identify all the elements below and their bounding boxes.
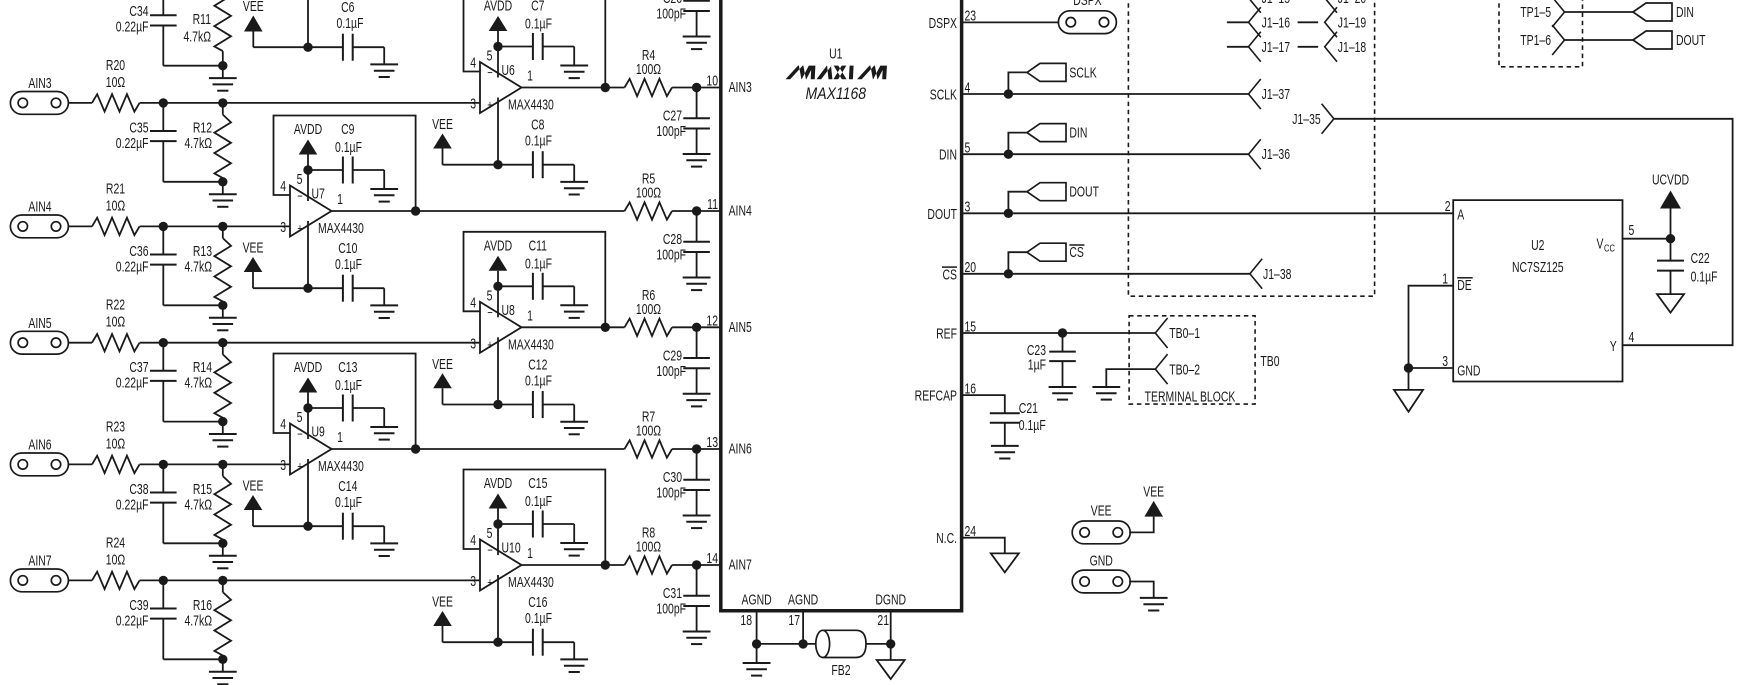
svg-text:R20: R20: [106, 57, 125, 73]
power VEE U9: [243, 478, 308, 526]
svg-text:3: 3: [1442, 353, 1448, 369]
wire: [962, 21, 1059, 23]
pad GND: [1072, 553, 1130, 593]
svg-text:0.1µF: 0.1µF: [525, 610, 552, 626]
pin 4 Y: [1610, 329, 1635, 354]
input pad AIN5: [10, 315, 68, 354]
node supply junction: [303, 165, 312, 174]
ground: [743, 644, 771, 676]
svg-text:5: 5: [1629, 222, 1635, 238]
svg-text:TP1–5: TP1–5: [1520, 4, 1551, 20]
ground: [683, 153, 711, 155]
resistor R8 100ohm: [625, 525, 673, 574]
svg-text:C11: C11: [529, 238, 547, 254]
flag CS: [1008, 243, 1084, 274]
flag DOUT: [1008, 183, 1099, 214]
node pin 12 junction: [692, 323, 701, 332]
resistor R13 4.7kohm: [184, 226, 231, 305]
svg-text:C10: C10: [338, 240, 357, 256]
wire: [522, 326, 625, 328]
wire pin 5: [307, 170, 309, 201]
svg-text:11: 11: [707, 196, 718, 212]
svg-text:R12: R12: [193, 120, 212, 136]
wire: [672, 448, 721, 450]
svg-text:V: V: [1597, 236, 1604, 252]
svg-text:AIN7: AIN7: [729, 557, 752, 573]
svg-text:C35: C35: [129, 120, 148, 136]
svg-text:DOUT: DOUT: [927, 206, 957, 222]
capacitor C27 100pF: [656, 88, 709, 155]
node RC junction: [218, 539, 227, 548]
ground: [209, 543, 237, 568]
svg-text:AVDD: AVDD: [484, 475, 512, 491]
svg-text:0.1µF: 0.1µF: [525, 493, 552, 509]
pin 5 DIN: [939, 140, 970, 163]
svg-text:AIN6: AIN6: [729, 441, 752, 457]
capacitor C15 0.1uF: [498, 475, 574, 543]
pin 1 DE: [1442, 271, 1473, 294]
power VEE: [1143, 484, 1164, 517]
ground: [560, 421, 588, 423]
node AIN3 junction 2: [218, 98, 227, 107]
pin 23 DSPX: [929, 8, 977, 31]
capacitor C10 0.1uF: [308, 240, 384, 305]
svg-text:C31: C31: [663, 585, 682, 601]
pin 3 GND: [1442, 353, 1480, 379]
wire feedback loop U8: [464, 232, 606, 327]
wire: [332, 210, 625, 212]
wire pin 5: [497, 524, 499, 555]
wire: [1409, 367, 1454, 369]
svg-text:0.1µF: 0.1µF: [525, 16, 552, 32]
node vee junction: [493, 160, 502, 169]
svg-text:5: 5: [297, 409, 303, 425]
resistor R20 10ohm: [92, 57, 140, 111]
resistor R15 4.7kohm: [184, 464, 231, 543]
svg-text:0.22µF: 0.22µF: [116, 19, 149, 35]
resistor R7 100ohm: [625, 409, 673, 458]
wire: [1565, 11, 1634, 13]
svg-text:MAX4430: MAX4430: [508, 97, 554, 113]
svg-text:J1–17: J1–17: [1262, 39, 1290, 55]
svg-text:+: +: [297, 222, 303, 236]
node output junction: [601, 560, 610, 569]
svg-text:R16: R16: [193, 597, 212, 613]
resistor R11 4.7kohm: [183, 0, 231, 66]
node AGND junction 2: [798, 639, 807, 648]
wire DE to GND: [1409, 286, 1454, 368]
svg-text:R13: R13: [193, 243, 212, 259]
svg-text:0.1µF: 0.1µF: [335, 377, 362, 393]
svg-text:DGND: DGND: [875, 592, 906, 608]
wire pin 2: [497, 98, 499, 165]
svg-text:100Ω: 100Ω: [636, 301, 661, 317]
svg-text:0.22µF: 0.22µF: [116, 613, 149, 629]
svg-text:UCVDD: UCVDD: [1652, 172, 1689, 188]
pin 20 CS: [942, 259, 976, 282]
wire: [163, 421, 223, 423]
svg-text:C6: C6: [341, 0, 354, 15]
svg-text:AIN5: AIN5: [729, 319, 752, 335]
capacitor C37 0.22uF: [116, 343, 177, 422]
wire feedback loop U10: [464, 470, 606, 566]
node supply junction: [493, 42, 502, 51]
op-amp U7 MAX4430: [280, 171, 364, 236]
svg-text:J1–38: J1–38: [1263, 266, 1291, 282]
svg-text:U9: U9: [312, 424, 325, 440]
connector J1-16: [1249, 7, 1291, 37]
pad DSPX: [1058, 0, 1116, 34]
svg-text:VEE: VEE: [432, 594, 453, 610]
connector J1-15: [1249, 0, 1291, 13]
node pin 13 junction: [692, 444, 701, 453]
ground: [683, 277, 711, 279]
svg-text:Y: Y: [1610, 338, 1617, 354]
ground: [209, 659, 237, 684]
wire J1-35 to U2 Y: [1334, 119, 1733, 345]
svg-text:4.7kΩ: 4.7kΩ: [184, 497, 212, 513]
wire feedback loop U9: [274, 354, 416, 450]
svg-text:0.1µF: 0.1µF: [1691, 269, 1718, 285]
node pin 11 junction: [692, 206, 701, 215]
dashed box J1 connector group: [1128, 0, 1374, 296]
node pin 14 junction: [692, 560, 701, 569]
svg-text:C21: C21: [1019, 400, 1038, 416]
svg-text:1µF: 1µF: [1028, 357, 1046, 373]
svg-text:U10: U10: [502, 540, 521, 556]
ground: [209, 305, 237, 330]
ground: [683, 631, 711, 633]
svg-text:0.22µF: 0.22µF: [116, 259, 149, 275]
svg-text:4.7kΩ: 4.7kΩ: [183, 29, 211, 45]
svg-text:R24: R24: [106, 535, 125, 551]
svg-text:VEE: VEE: [243, 0, 264, 14]
wire: [672, 87, 721, 89]
svg-text:VEE: VEE: [1143, 484, 1164, 500]
svg-text:0.22µF: 0.22µF: [116, 497, 149, 513]
svg-text:4.7kΩ: 4.7kΩ: [184, 375, 212, 391]
svg-text:FB2: FB2: [831, 662, 850, 678]
svg-text:GND: GND: [1090, 553, 1113, 569]
capacitor C14 0.1uF: [308, 478, 384, 543]
svg-text:0.1µF: 0.1µF: [335, 139, 362, 155]
pin 21 DGND: [875, 592, 906, 644]
flag SCLK: [1008, 63, 1097, 94]
power AVDD U6: [484, 0, 512, 47]
capacitor C36 0.22uF: [116, 226, 177, 305]
ferrite bead FB2: [816, 630, 866, 678]
svg-text:C39: C39: [129, 597, 148, 613]
svg-text:DIN: DIN: [1069, 125, 1087, 141]
svg-text:C9: C9: [341, 121, 354, 137]
wire: [140, 342, 480, 344]
node AIN5 junction: [159, 338, 168, 347]
svg-text:−: −: [297, 190, 303, 204]
ground: [370, 63, 398, 65]
svg-text:100pF: 100pF: [656, 363, 686, 379]
capacitor C8 0.1uF: [498, 117, 574, 182]
ground: [209, 66, 237, 91]
capacitor C16 0.1uF: [498, 594, 574, 659]
node vee junction: [493, 638, 502, 647]
pin 13 AIN6: [706, 434, 751, 457]
node AIN7 junction 2: [218, 576, 227, 585]
svg-text:VEE: VEE: [243, 240, 264, 256]
wire: [1298, 21, 1319, 23]
svg-text:J1–20: J1–20: [1338, 0, 1366, 6]
svg-text:0.1µF: 0.1µF: [525, 256, 552, 272]
svg-text:0.1µF: 0.1µF: [335, 256, 362, 272]
svg-text:AGND: AGND: [788, 592, 818, 608]
resistor R22 10ohm: [92, 297, 140, 351]
svg-text:TP1–6: TP1–6: [1520, 32, 1551, 48]
ground: [370, 426, 398, 428]
ground: [560, 181, 588, 183]
svg-text:U6: U6: [502, 62, 515, 78]
svg-text:3: 3: [280, 457, 286, 473]
resistor R12 4.7kohm: [184, 103, 231, 182]
wire: [68, 102, 92, 104]
connector J1-35: [1292, 104, 1334, 134]
capacitor C39 0.22uF: [116, 580, 177, 659]
node U2 ground junction: [1404, 363, 1413, 372]
node AIN5 junction 2: [218, 338, 227, 347]
svg-text:AIN3: AIN3: [28, 75, 51, 91]
svg-text:AVDD: AVDD: [484, 0, 512, 14]
capacitor C31 100pF: [656, 565, 709, 632]
connector J1-19: [1325, 7, 1367, 37]
wire pin 2: [307, 221, 309, 288]
capacitor C30 100pF: [656, 449, 709, 516]
resistor R21 10ohm: [92, 181, 140, 235]
svg-text:J1–15: J1–15: [1262, 0, 1290, 6]
node supply junction: [493, 519, 502, 528]
wire: [140, 579, 480, 581]
ground digital: [1394, 368, 1423, 412]
svg-text:TB0: TB0: [1260, 353, 1279, 369]
svg-text:100Ω: 100Ω: [636, 61, 661, 77]
test point TP1-5: [1520, 0, 1564, 27]
wire: [68, 463, 92, 465]
svg-text:100pF: 100pF: [656, 601, 686, 617]
svg-text:C7: C7: [531, 0, 544, 14]
ground: [991, 445, 1019, 447]
capacitor C22 0.1uF: [1657, 239, 1718, 294]
power UCVDD: [1652, 172, 1689, 239]
ground: [370, 542, 398, 544]
svg-text:0.1µF: 0.1µF: [525, 133, 552, 149]
ground: [209, 182, 237, 207]
op-amp U8 MAX4430: [470, 288, 554, 353]
svg-text:1: 1: [1442, 271, 1448, 287]
wire: [672, 564, 721, 566]
pin 12 AIN5: [706, 313, 751, 336]
svg-text:1: 1: [527, 68, 533, 84]
wire pin 2: [307, 459, 309, 526]
wire TB0-2: [1106, 369, 1155, 387]
resistor R6 100ohm: [625, 287, 673, 336]
ground: [683, 515, 711, 517]
svg-text:3: 3: [280, 219, 286, 235]
node output junction: [601, 323, 610, 332]
svg-text:5: 5: [297, 171, 303, 187]
svg-text:17: 17: [788, 612, 800, 628]
wire: [163, 658, 223, 660]
svg-text:5: 5: [487, 48, 493, 64]
svg-text:+: +: [487, 576, 493, 590]
node DOUT junction: [1004, 209, 1013, 218]
wire: [522, 564, 625, 566]
wire pin 2: [497, 575, 499, 642]
svg-text:DSPX: DSPX: [1073, 0, 1102, 8]
node RC junction: [218, 417, 227, 426]
resistor R14 4.7kohm: [184, 343, 231, 422]
svg-text:0.1µF: 0.1µF: [525, 373, 552, 389]
node REF junction: [1058, 328, 1067, 337]
svg-text:0.22µF: 0.22µF: [116, 375, 149, 391]
svg-text:VEE: VEE: [243, 478, 264, 494]
svg-text:100pF: 100pF: [656, 123, 686, 139]
svg-text:CS: CS: [943, 267, 957, 283]
wire: [962, 273, 1009, 275]
connector J1-17: [1249, 32, 1291, 62]
svg-text:C12: C12: [528, 357, 547, 373]
capacitor C6 0.1uF: [308, 0, 384, 64]
power VEE U5: [243, 0, 308, 47]
svg-text:J1–18: J1–18: [1338, 39, 1366, 55]
ground: [1049, 386, 1077, 388]
pin 24 N.C.: [936, 523, 976, 546]
node RC junction: [218, 301, 227, 310]
dashed box TP1: [1499, 0, 1583, 67]
ground: [560, 542, 588, 544]
capacitor C9 0.1uF: [308, 121, 384, 189]
power AVDD U10: [484, 475, 512, 524]
ground digital: [1657, 294, 1684, 313]
svg-text:5: 5: [487, 525, 493, 541]
ground: [209, 422, 237, 447]
wire: [962, 93, 1009, 95]
svg-text:4.7kΩ: 4.7kΩ: [184, 613, 212, 629]
connector TB0-2: [1155, 354, 1200, 384]
pin 14 AIN7: [706, 550, 751, 573]
ground: [560, 304, 588, 306]
svg-text:AVDD: AVDD: [484, 238, 512, 254]
dashed box TB0 terminal block: [1129, 316, 1279, 405]
svg-text:3: 3: [470, 573, 476, 589]
svg-text:C27: C27: [663, 108, 682, 124]
power VEE U6: [432, 116, 498, 164]
input pad AIN7: [10, 553, 68, 592]
ground: [991, 553, 1019, 572]
svg-text:4: 4: [470, 55, 476, 71]
svg-text:R23: R23: [106, 419, 125, 435]
wire: [163, 181, 223, 183]
svg-text:21: 21: [877, 612, 889, 628]
svg-text:U7: U7: [312, 186, 325, 202]
svg-text:MAX4430: MAX4430: [318, 220, 364, 236]
node SCLK junction: [1004, 89, 1013, 98]
wire feedback loop U6: [464, 0, 606, 88]
wire: [866, 643, 891, 645]
wire feedback loop U7: [274, 116, 416, 212]
wire: [140, 225, 290, 227]
flag DIN: [1008, 124, 1087, 155]
svg-text:MAX4430: MAX4430: [318, 458, 364, 474]
wire: [1565, 39, 1634, 41]
capacitor C21 0.1uF: [990, 400, 1046, 446]
wire: [68, 225, 92, 227]
pin 16 REFCAP: [915, 381, 976, 404]
svg-text:TERMINAL BLOCK: TERMINAL BLOCK: [1145, 389, 1236, 405]
node R11 junction: [218, 61, 227, 70]
svg-text:R22: R22: [106, 297, 125, 313]
wire SCLK to J1-37: [1008, 93, 1248, 95]
flag DIN: [1633, 3, 1694, 21]
svg-text:C13: C13: [338, 359, 357, 375]
input pad AIN4: [10, 199, 68, 238]
wire: [1129, 517, 1154, 533]
wire CS to J1-38: [1008, 273, 1250, 275]
connector J1-18: [1325, 32, 1367, 62]
svg-text:J1–37: J1–37: [1262, 86, 1290, 102]
test point TP1-6: [1520, 25, 1564, 55]
svg-text:4: 4: [280, 178, 286, 194]
wire: [1298, 46, 1319, 48]
power VEE U10: [432, 594, 498, 642]
svg-text:TB0–2: TB0–2: [1169, 362, 1200, 378]
svg-text:U8: U8: [502, 302, 515, 318]
capacitor C7 0.1uF: [498, 0, 574, 66]
svg-text:4.7kΩ: 4.7kΩ: [184, 259, 212, 275]
capacitor C12 0.1uF: [498, 357, 574, 422]
svg-text:+: +: [487, 338, 493, 352]
ground: [560, 658, 588, 660]
svg-text:+: +: [487, 99, 493, 113]
connector J1-38: [1250, 259, 1292, 289]
resistor R4 100ohm: [625, 48, 673, 97]
ground: [370, 188, 398, 190]
node AIN3 junction: [159, 98, 168, 107]
svg-text:10Ω: 10Ω: [106, 436, 125, 452]
svg-text:100pF: 100pF: [656, 247, 686, 263]
node output junction: [601, 83, 610, 92]
pin 15 REF: [936, 319, 976, 342]
svg-text:DIN: DIN: [939, 147, 957, 163]
svg-text:GND: GND: [1457, 363, 1480, 379]
svg-text:C8: C8: [531, 117, 544, 133]
svg-text:1: 1: [337, 191, 343, 207]
ground: [683, 393, 711, 395]
wire: [140, 463, 290, 465]
capacitor C35 0.22uF: [116, 103, 177, 182]
svg-text:SCLK: SCLK: [1069, 65, 1097, 81]
ground: [370, 304, 398, 306]
node AIN4 junction: [159, 222, 168, 231]
wire VCC: [1623, 238, 1671, 240]
svg-text:C30: C30: [663, 469, 682, 485]
connector TB0-1: [1155, 318, 1200, 348]
svg-text:13: 13: [706, 434, 718, 450]
svg-text:R11: R11: [193, 11, 211, 27]
svg-text:100Ω: 100Ω: [636, 185, 661, 201]
svg-text:AIN3: AIN3: [729, 80, 752, 96]
capacitor C13 0.1uF: [308, 359, 384, 427]
node pin 10 junction: [692, 83, 701, 92]
svg-text:A: A: [1457, 207, 1464, 223]
wire: [163, 542, 223, 544]
IC U2 NC7SZ125: [1453, 200, 1622, 381]
